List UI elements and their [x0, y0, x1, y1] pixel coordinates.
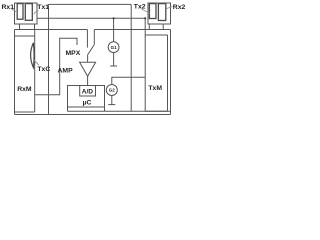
label Rx2 leader	[166, 7, 172, 9]
inner bottom line	[68, 110, 171, 112]
microcontroller box	[68, 86, 105, 108]
svg-text:G2: G2	[109, 88, 116, 93]
connector J1 step rect	[20, 24, 35, 30]
svg-text:µC: µC	[83, 100, 92, 107]
connector J1 pin Rx1	[17, 4, 23, 20]
housing box (main shield)	[15, 30, 171, 115]
MPX box (open)	[35, 38, 77, 95]
terminal bar G1	[110, 65, 117, 67]
wire V1 left drop	[48, 4, 50, 114]
svg-text:Tx1: Tx1	[37, 4, 49, 11]
svg-text:G1: G1	[111, 45, 118, 50]
microcontroller tab	[68, 107, 105, 111]
terminal bar G2	[108, 104, 115, 106]
wire V2	[37, 17, 146, 19]
svg-text:AMP: AMP	[58, 67, 74, 74]
node junction dot G1/V2	[113, 17, 115, 19]
RxM box	[15, 30, 35, 113]
switch S1 left contact	[86, 30, 88, 48]
A/D converter box	[80, 86, 96, 97]
svg-text:TxM: TxM	[148, 85, 162, 92]
label Tx1 leader	[34, 11, 39, 15]
connector J2 step rect	[149, 24, 163, 30]
wire amp to A/D	[87, 76, 89, 85]
wire V1 right drop	[130, 4, 132, 111]
TxC coil lens	[31, 43, 34, 68]
svg-text:RxM: RxM	[17, 86, 32, 93]
connector J1 pin Tx1	[25, 4, 32, 21]
connector J2 outer box	[148, 3, 171, 24]
svg-text:MPX: MPX	[66, 50, 81, 57]
TxM box	[145, 18, 167, 112]
connector J1 outer box	[15, 3, 38, 24]
housing bottom baseline	[15, 114, 171, 116]
svg-text:TxC: TxC	[37, 66, 50, 73]
generator G1 circle	[108, 42, 119, 53]
wire G1 stem bottom	[113, 53, 115, 66]
svg-text:A/D: A/D	[82, 88, 94, 95]
node junction dot V2/TxM	[144, 17, 146, 19]
label Tx2 leader	[142, 9, 151, 14]
svg-text:Rx2: Rx2	[173, 4, 186, 11]
op-amp AMP triangle	[80, 62, 96, 76]
svg-text:Rx1: Rx1	[2, 4, 15, 11]
wire top loop V1	[49, 3, 132, 5]
label Rx1 leader	[12, 9, 19, 13]
wire G2 stem bottom	[111, 96, 113, 105]
wire G1 stem top	[113, 18, 115, 42]
connector J2 pin Tx2	[149, 4, 156, 19]
switch S1 blade	[88, 45, 95, 55]
TxC leader line	[33, 59, 39, 65]
wire blade to amp	[87, 55, 89, 62]
switch S1 right contact	[93, 30, 95, 45]
wire G2 riser and branch	[112, 77, 145, 84]
connector J2 pin Rx2	[158, 4, 165, 21]
generator G2 circle	[106, 85, 117, 96]
svg-text:Tx2: Tx2	[134, 3, 146, 10]
